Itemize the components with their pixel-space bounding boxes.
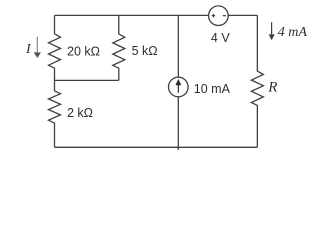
svg-text:4 V: 4 V (211, 31, 230, 45)
svg-text:10 mA: 10 mA (194, 82, 231, 96)
svg-text:5 kΩ: 5 kΩ (132, 44, 158, 58)
svg-text:4 mA: 4 mA (278, 25, 308, 40)
svg-text:I: I (25, 42, 32, 57)
svg-text:20 kΩ: 20 kΩ (67, 44, 100, 58)
svg-text:R: R (267, 79, 277, 95)
svg-text:2 kΩ: 2 kΩ (67, 106, 93, 120)
